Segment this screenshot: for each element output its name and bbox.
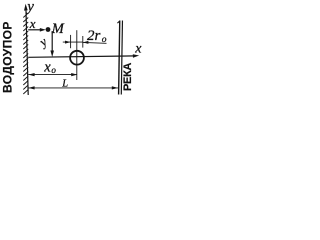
wire well centerline [76,30,78,80]
node M point [46,27,51,32]
svg-text:L: L [61,78,68,89]
hatching of водоупор wall [23,13,28,94]
wire y-coordinate line from M [51,31,53,53]
well circle [70,51,84,65]
svg-text:2r: 2r [87,28,101,44]
svg-text:y: y [25,0,34,15]
wire x0 dimension line [28,74,77,76]
wire y-axis wall line [26,10,28,95]
wire left extension line 2r0 [70,35,72,48]
wire 2r0 dimension line [63,41,83,43]
svg-text:x: x [43,59,51,75]
svg-text:x: x [29,16,36,31]
svg-text:M: M [51,21,65,37]
wire x-axis [28,56,136,57]
wire river wall left line [116,20,122,94]
svg-text:РЕКА: РЕКА [122,63,134,91]
svg-text:x: x [134,41,142,56]
wire right extension line 2r0 [82,36,84,48]
svg-text:o: o [51,65,56,75]
wire arrow x-coordinate of M [28,29,43,31]
svg-text:o: o [102,35,107,45]
wire river wall right line [121,21,122,95]
y-axis arrowhead [24,4,28,11]
wire river wall top tick [117,21,119,23]
svg-text:ВОДОУПОР: ВОДОУПОР [0,21,14,93]
wire 2r0 dimension tail under label [83,41,107,44]
wire L dimension line [28,87,118,89]
